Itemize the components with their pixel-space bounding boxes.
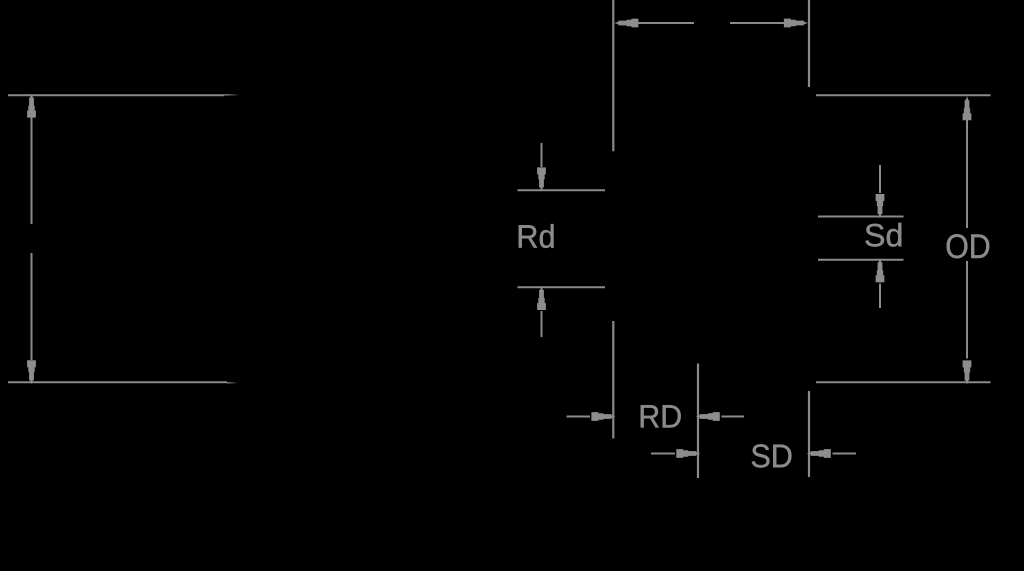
- OD top arrowhead (up): [963, 96, 972, 120]
- SD left arrowhead (pointing right): [676, 449, 700, 458]
- top width dimension shaft right: [730, 22, 785, 24]
- Sd lower arrow shaft: [879, 284, 881, 309]
- label RD: [641, 405, 681, 427]
- left figure bottom edge line: [8, 381, 237, 384]
- right figure bottom edge line: [816, 381, 991, 383]
- OD dimension line lower segment: [966, 261, 968, 359]
- Rd lower arrow shaft: [541, 311, 543, 337]
- left figure top edge line: [8, 94, 239, 96]
- SD extension line right (x=809 lower segment): [808, 391, 810, 477]
- label Rd: [519, 224, 554, 248]
- RD/SD shared extension line (x=698): [697, 364, 699, 479]
- RD extension line left (x=613 lower segment): [612, 321, 614, 439]
- Sd upper arrow shaft: [879, 165, 881, 193]
- Rd upper dimension line: [518, 189, 606, 191]
- top width dimension extension line right: [808, 0, 810, 87]
- label SD: [752, 444, 792, 467]
- top width dimension extension line left: [612, 0, 614, 151]
- top width dimension arrowhead left: [614, 19, 638, 28]
- OD bottom arrowhead (down): [963, 360, 972, 384]
- SD left arrow shaft: [651, 453, 675, 455]
- label OD: [947, 234, 990, 258]
- RD right arrow shaft: [722, 416, 745, 418]
- RD left arrowhead (pointing right): [591, 412, 615, 421]
- left figure dimension arrowhead down: [27, 360, 36, 384]
- label Sd: [865, 223, 901, 247]
- Sd upper arrowhead (down): [876, 194, 885, 218]
- Rd upper arrow shaft: [541, 143, 543, 167]
- right figure top edge line: [816, 94, 991, 96]
- Rd lower dimension line: [518, 286, 606, 288]
- Sd lower dimension line: [818, 259, 904, 261]
- RD right arrowhead (pointing left): [696, 412, 720, 421]
- top width dimension shaft left: [637, 22, 694, 24]
- left figure vertical dimension line (upper segment): [31, 117, 33, 224]
- top width dimension arrowhead right: [784, 19, 808, 28]
- Sd lower arrowhead (up): [876, 258, 885, 282]
- left figure vertical dimension line (lower segment): [31, 253, 33, 360]
- SD right arrowhead (pointing left): [807, 449, 831, 458]
- RD left arrow shaft: [567, 416, 591, 418]
- OD dimension line upper segment: [966, 120, 968, 229]
- Rd upper arrowhead (down): [537, 167, 546, 191]
- SD right arrow shaft: [833, 453, 857, 455]
- Sd upper dimension line: [818, 216, 904, 218]
- left figure dimension arrowhead up: [27, 94, 36, 118]
- Rd lower arrowhead (up): [537, 286, 546, 310]
